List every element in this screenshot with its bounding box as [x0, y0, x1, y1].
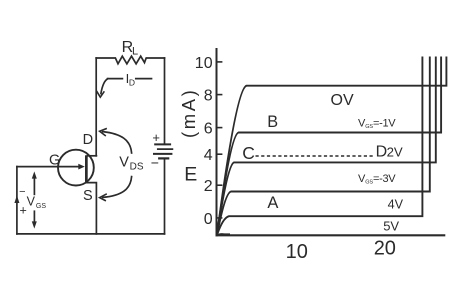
svg-text:B: B: [267, 113, 278, 131]
svg-text:GS: GS: [36, 203, 46, 210]
svg-text:D: D: [129, 78, 135, 88]
svg-text:=-1V: =-1V: [373, 117, 396, 129]
svg-text:S: S: [83, 188, 93, 204]
svg-text:D: D: [83, 132, 93, 148]
svg-text:+: +: [152, 130, 160, 145]
svg-text:10: 10: [195, 55, 213, 72]
svg-text:2: 2: [204, 178, 213, 195]
svg-text:A: A: [267, 194, 278, 212]
svg-text:5V: 5V: [383, 218, 399, 233]
svg-text:=-3V: =-3V: [373, 173, 396, 185]
svg-text:C: C: [242, 143, 255, 163]
svg-text:−: −: [19, 186, 25, 198]
svg-text:0: 0: [204, 211, 213, 228]
svg-text:G: G: [49, 153, 60, 169]
svg-text:V: V: [27, 195, 36, 209]
svg-text:4V: 4V: [388, 198, 404, 212]
svg-text:OV: OV: [331, 92, 354, 109]
svg-text:L: L: [132, 46, 138, 58]
svg-text:8: 8: [204, 88, 213, 105]
svg-text:20: 20: [374, 237, 396, 259]
svg-text:D: D: [376, 144, 388, 161]
svg-text:(mA): (mA): [178, 88, 199, 138]
svg-text:E: E: [184, 164, 197, 186]
svg-text:6: 6: [204, 121, 213, 138]
svg-text:V: V: [119, 154, 129, 170]
svg-text:2V: 2V: [387, 144, 403, 159]
svg-text:4: 4: [204, 147, 213, 164]
svg-text:DS: DS: [130, 162, 144, 173]
svg-text:10: 10: [286, 241, 308, 263]
svg-text:−: −: [151, 155, 159, 171]
